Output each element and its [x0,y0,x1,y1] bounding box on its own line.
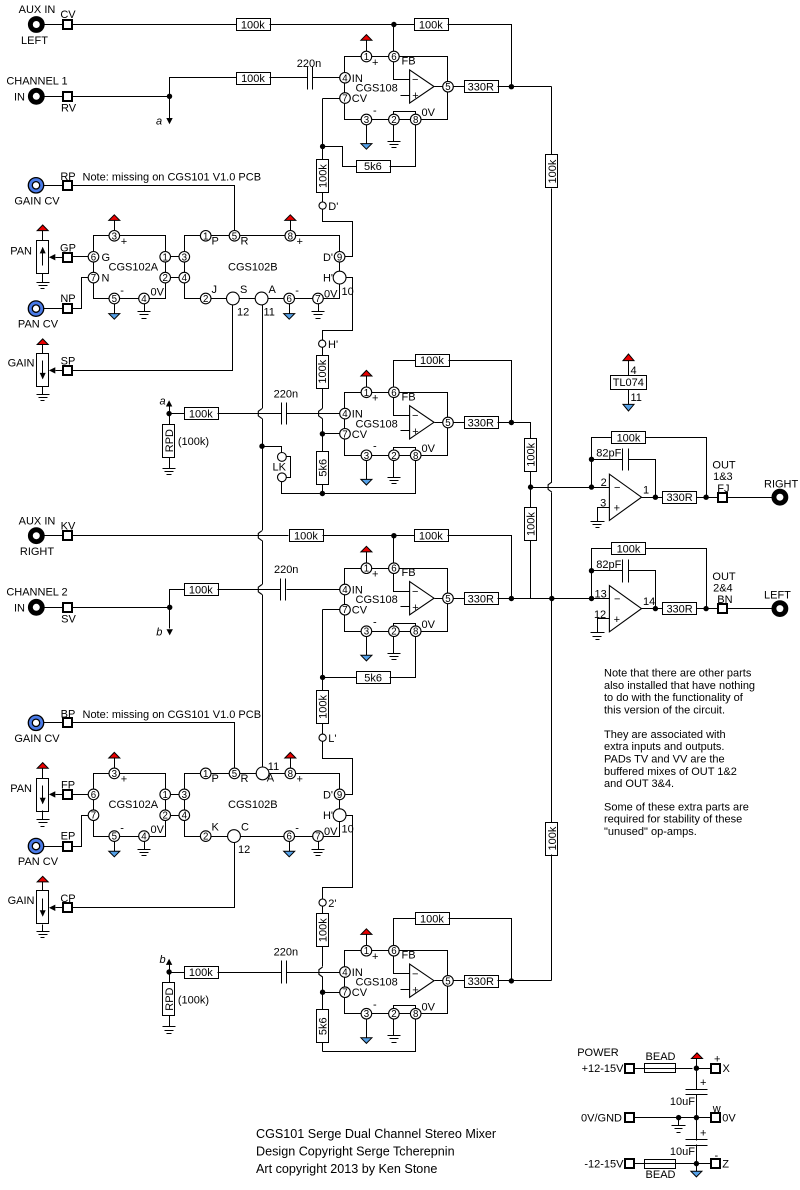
svg-text:0V: 0V [324,289,338,301]
svg-text:CGS102A: CGS102A [109,799,159,811]
svg-text:this version of the circuit.: this version of the circuit. [604,704,725,716]
svg-text:1: 1 [203,231,208,242]
svg-text:220n: 220n [274,388,298,400]
svg-text:+: + [121,236,127,248]
svg-text:NP: NP [60,293,75,305]
svg-text:H': H' [328,339,338,351]
svg-text:PAN: PAN [10,246,32,258]
svg-text:+: + [614,614,620,626]
svg-text:and OUT 3&4.: and OUT 3&4. [604,778,674,790]
svg-text:3: 3 [112,231,117,242]
svg-text:RIGHT: RIGHT [20,546,55,558]
svg-text:FP: FP [61,780,75,792]
svg-text:2: 2 [391,115,396,126]
svg-text:−: − [412,74,418,86]
svg-text:-: - [373,617,377,629]
svg-text:PAN CV: PAN CV [18,318,59,330]
svg-text:8: 8 [413,627,418,638]
svg-text:2: 2 [601,477,607,489]
svg-text:also installed that have nothi: also installed that have nothing [604,680,755,692]
svg-text:b: b [156,627,162,639]
svg-text:5: 5 [445,976,450,987]
svg-text:4: 4 [182,811,188,822]
svg-text:+: + [297,773,303,785]
svg-text:FB: FB [402,391,416,403]
svg-text:CV: CV [60,9,76,21]
svg-text:100k: 100k [318,694,330,718]
svg-text:+: + [372,951,378,963]
svg-text:220n: 220n [274,564,298,576]
svg-text:extra inputs and outputs.: extra inputs and outputs. [604,741,724,753]
svg-text:3: 3 [112,769,117,780]
svg-text:CHANNEL 2: CHANNEL 2 [6,587,67,599]
svg-text:3: 3 [364,451,369,462]
svg-text:330R: 330R [666,604,692,616]
svg-text:LEFT: LEFT [21,35,48,47]
svg-text:+: + [121,773,127,785]
svg-text:+: + [700,1077,706,1089]
svg-text:RIGHT: RIGHT [764,478,799,490]
svg-text:2&4: 2&4 [713,582,733,594]
svg-text:11: 11 [264,307,275,319]
svg-text:Art copyright 2013 by Ken Ston: Art copyright 2013 by Ken Stone [256,1162,437,1176]
svg-text:3: 3 [182,790,187,801]
svg-text:7: 7 [315,832,320,843]
svg-text:PAN: PAN [10,783,32,795]
svg-text:KV: KV [61,520,76,532]
svg-text:FB: FB [402,567,416,579]
svg-text:RPD: RPD [164,429,176,452]
svg-text:+: + [412,90,418,102]
svg-text:CHANNEL 1: CHANNEL 1 [6,76,67,88]
svg-text:N: N [102,273,110,285]
svg-text:CV: CV [352,987,368,999]
svg-text:7: 7 [315,294,320,305]
svg-text:BN: BN [717,594,732,606]
svg-text:CGS102B: CGS102B [228,799,278,811]
svg-text:required for stability of thes: required for stability of these [604,814,742,826]
svg-text:1: 1 [203,769,208,780]
svg-text:-: - [295,285,299,297]
svg-text:1: 1 [364,946,369,957]
svg-text:6: 6 [287,832,292,843]
svg-text:100k: 100k [526,512,538,536]
svg-text:RPD: RPD [164,987,176,1010]
svg-text:CV: CV [352,93,368,105]
svg-text:0V: 0V [324,826,338,838]
svg-text:12: 12 [237,307,249,319]
svg-text:12: 12 [238,844,250,856]
svg-text:1: 1 [364,52,369,63]
svg-text:Note: missing on CGS101 V1.0 P: Note: missing on CGS101 V1.0 PCB [83,709,262,721]
svg-text:K: K [212,822,220,834]
svg-text:6: 6 [91,790,96,801]
svg-text:GAIN CV: GAIN CV [14,733,60,745]
svg-text:IN: IN [14,91,25,103]
svg-text:LK: LK [273,461,287,473]
svg-text:AUX IN: AUX IN [19,515,56,527]
svg-text:BEAD: BEAD [646,1051,676,1063]
svg-text:11: 11 [631,392,642,404]
svg-text:10: 10 [342,286,354,298]
svg-text:−: − [614,482,620,494]
svg-text:-: - [120,823,124,835]
svg-text:+: + [372,569,378,581]
svg-text:2: 2 [163,273,168,284]
svg-text:3: 3 [364,627,369,638]
svg-text:6: 6 [287,294,292,305]
svg-text:330R: 330R [468,976,494,988]
svg-text:1: 1 [163,252,168,263]
svg-text:D': D' [323,252,333,264]
svg-text:100k: 100k [241,73,265,85]
svg-text:6: 6 [391,946,396,957]
svg-text:330R: 330R [468,593,494,605]
svg-text:+: + [412,426,418,438]
svg-text:100k: 100k [318,918,330,942]
svg-text:-: - [373,105,377,117]
svg-text:4: 4 [342,968,348,979]
svg-text:100k: 100k [419,20,443,32]
svg-text:5: 5 [445,82,450,93]
svg-text:+: + [372,393,378,405]
svg-text:100k: 100k [617,432,641,444]
svg-text:PAN CV: PAN CV [18,856,59,868]
svg-text:9: 9 [337,252,342,263]
svg-text:A: A [267,772,275,784]
svg-text:EP: EP [61,831,76,843]
svg-text:82pF: 82pF [596,559,621,571]
svg-text:-: - [295,823,299,835]
svg-text:-: - [120,285,124,297]
svg-text:11: 11 [268,761,279,773]
svg-text:S: S [240,284,247,296]
svg-text:b: b [160,954,166,966]
svg-text:1: 1 [364,564,369,575]
svg-text:5k6: 5k6 [318,1017,330,1035]
svg-text:100k: 100k [547,159,559,183]
svg-text:0V: 0V [422,619,436,631]
svg-text:5k6: 5k6 [364,672,382,684]
svg-text:7: 7 [342,605,347,616]
svg-text:GP: GP [60,243,76,255]
svg-text:Note: missing on CGS101 V1.0 P: Note: missing on CGS101 V1.0 PCB [83,171,262,183]
svg-text:330R: 330R [666,492,692,504]
svg-text:0V: 0V [422,1001,436,1013]
svg-text:-: - [373,441,377,453]
svg-text:to do with the functionality o: to do with the functionality of [604,692,744,704]
svg-text:(100k): (100k) [178,436,209,448]
svg-text:+: + [700,1128,706,1140]
svg-text:8: 8 [288,231,293,242]
svg-text:−: − [614,593,620,605]
svg-text:2: 2 [391,627,396,638]
svg-text:1&3: 1&3 [713,471,733,483]
svg-text:PADs TV and VV are the: PADs TV and VV are the [604,754,725,766]
svg-text:8: 8 [413,451,418,462]
svg-text:A: A [269,284,277,296]
svg-text:TL074: TL074 [613,377,644,389]
svg-text:5: 5 [445,418,450,429]
svg-text:7: 7 [91,273,96,284]
svg-text:100k: 100k [317,359,329,383]
svg-text:+: + [297,236,303,248]
svg-text:6: 6 [391,388,396,399]
svg-text:7: 7 [342,988,347,999]
svg-text:2: 2 [203,294,208,305]
svg-text:AUX IN: AUX IN [19,4,56,16]
svg-text:+: + [412,984,418,996]
svg-text:GAIN: GAIN [8,895,35,907]
svg-text:"unused" op-amps.: "unused" op-amps. [604,826,697,838]
svg-text:2: 2 [163,811,168,822]
svg-text:CGS102B: CGS102B [228,262,278,274]
svg-text:FJ: FJ [717,483,729,495]
svg-text:8: 8 [413,115,418,126]
svg-text:2: 2 [391,451,396,462]
svg-text:J: J [212,284,218,296]
svg-text:8: 8 [413,1009,418,1020]
svg-text:6: 6 [391,564,396,575]
svg-text:4: 4 [141,832,147,843]
svg-text:Z: Z [722,1158,729,1170]
svg-text:100k: 100k [189,967,213,979]
svg-text:100k: 100k [420,355,444,367]
svg-text:+12-15V: +12-15V [582,1063,625,1075]
svg-text:10uF: 10uF [670,1096,695,1108]
svg-text:82pF: 82pF [596,448,621,460]
svg-text:FB: FB [402,56,416,68]
svg-text:100k: 100k [189,585,213,597]
svg-text:4: 4 [182,273,188,284]
svg-text:0V: 0V [722,1112,736,1124]
svg-text:0V/GND: 0V/GND [581,1112,622,1124]
svg-text:(100k): (100k) [178,995,209,1007]
svg-text:+: + [372,57,378,69]
svg-text:100k: 100k [294,531,318,543]
svg-text:X: X [723,1063,731,1075]
svg-text:220n: 220n [297,58,321,70]
svg-text:6: 6 [391,52,396,63]
svg-text:OUT: OUT [712,571,736,583]
svg-text:10: 10 [342,824,354,836]
svg-text:4: 4 [342,73,348,84]
svg-text:SV: SV [61,614,76,626]
svg-text:P: P [212,236,219,248]
svg-text:L': L' [328,733,336,745]
svg-text:SP: SP [61,356,76,368]
svg-text:D': D' [323,789,333,801]
svg-text:R: R [241,773,249,785]
svg-text:100k: 100k [617,544,641,556]
svg-text:100k: 100k [420,914,444,926]
svg-text:8: 8 [288,769,293,780]
svg-text:4: 4 [141,294,147,305]
svg-text:5: 5 [232,231,237,242]
svg-text:5: 5 [445,594,450,605]
svg-text:H': H' [323,810,333,822]
svg-text:0V: 0V [422,443,436,455]
svg-text:IN: IN [14,602,25,614]
svg-text:They are associated with: They are associated with [604,729,726,741]
svg-text:220n: 220n [274,947,298,959]
svg-text:330R: 330R [468,418,494,430]
svg-text:CP: CP [60,893,75,905]
svg-text:C: C [241,822,249,834]
svg-text:2': 2' [328,898,336,910]
svg-text:7: 7 [342,429,347,440]
svg-text:CGS101 Serge Dual Channel Ster: CGS101 Serge Dual Channel Stereo Mixer [256,1127,496,1141]
svg-text:OUT: OUT [712,460,736,472]
svg-text:9: 9 [337,790,342,801]
svg-text:-: - [373,999,377,1011]
svg-text:3: 3 [364,115,369,126]
svg-text:330R: 330R [468,82,494,94]
svg-text:a: a [156,116,162,128]
svg-text:BP: BP [61,709,76,721]
svg-text:GAIN: GAIN [8,358,35,370]
svg-text:100k: 100k [547,826,559,850]
svg-text:+: + [614,503,620,515]
svg-text:a: a [160,396,166,408]
svg-text:H': H' [323,273,333,285]
svg-text:5k6: 5k6 [364,161,382,173]
svg-text:BEAD: BEAD [646,1169,676,1181]
svg-text:6: 6 [91,252,96,263]
svg-text:0V: 0V [422,107,436,119]
svg-text:5k6: 5k6 [317,459,329,477]
svg-text:7: 7 [342,94,347,105]
svg-text:−: − [412,586,418,598]
svg-text:D': D' [328,201,338,213]
svg-text:-12-15V: -12-15V [584,1158,624,1170]
svg-text:RV: RV [61,103,77,115]
svg-text:−: − [412,968,418,980]
svg-text:10uF: 10uF [670,1146,695,1158]
svg-text:1: 1 [364,388,369,399]
svg-text:2: 2 [203,832,208,843]
svg-text:CGS102A: CGS102A [109,262,159,274]
svg-text:Design Copyright Serge Tcherep: Design Copyright Serge Tcherepnin [256,1145,455,1159]
svg-text:Note that there are other part: Note that there are other parts [604,668,752,680]
svg-text:100k: 100k [241,20,265,32]
svg-text:FB: FB [402,950,416,962]
svg-text:100k: 100k [318,164,330,188]
svg-text:5: 5 [112,832,117,843]
svg-text:13: 13 [595,589,607,601]
svg-text:R: R [241,236,249,248]
svg-text:0V: 0V [151,824,165,836]
svg-text:4: 4 [342,409,348,420]
svg-text:5: 5 [232,769,237,780]
svg-text:−: − [412,410,418,422]
svg-text:4: 4 [342,585,348,596]
svg-text:5: 5 [112,294,117,305]
svg-text:LEFT: LEFT [764,590,791,602]
svg-text:Some of these extra parts are: Some of these extra parts are [604,801,749,813]
svg-text:100k: 100k [526,442,538,466]
svg-text:1: 1 [643,485,649,497]
svg-text:1: 1 [163,790,168,801]
svg-text:14: 14 [643,596,655,608]
svg-text:GAIN CV: GAIN CV [14,195,60,207]
svg-text:CV: CV [352,429,368,441]
svg-text:CV: CV [352,605,368,617]
svg-text:+: + [412,602,418,614]
svg-text:buffered mixes of OUT 1&2: buffered mixes of OUT 1&2 [604,766,737,778]
svg-text:7: 7 [91,811,96,822]
svg-text:POWER: POWER [577,1047,619,1059]
svg-text:RP: RP [60,171,75,183]
svg-text:0V: 0V [151,287,165,299]
svg-text:100k: 100k [419,531,443,543]
svg-text:100k: 100k [189,409,213,421]
svg-text:P: P [212,773,219,785]
svg-text:3: 3 [182,252,187,263]
svg-text:12: 12 [594,609,606,621]
